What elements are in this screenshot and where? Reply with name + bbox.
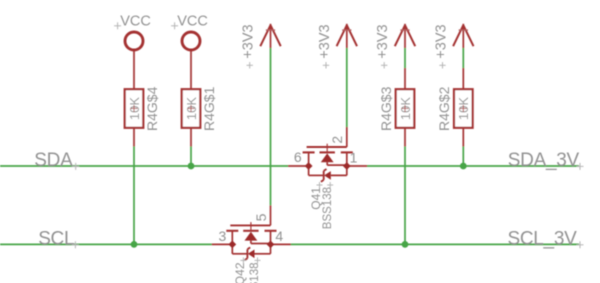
svg-text:+3V3: +3V3 — [375, 24, 391, 58]
net label SDA — [34, 150, 79, 171]
svg-text:+3V3: +3V3 — [241, 24, 257, 58]
label Q42 — [233, 257, 247, 283]
svg-text:4: 4 — [275, 228, 283, 244]
wire +3V3 to Q42 pin 5 — [270, 48, 272, 205]
svg-text:6: 6 — [294, 149, 302, 165]
pin wire below R4G$4 — [133, 128, 135, 147]
supply symbol +3V3 (third) — [375, 24, 415, 69]
svg-text:5: 5 — [253, 213, 269, 221]
pin number 4 (Q42) — [275, 228, 283, 244]
junction on SCL at R4G$4 — [131, 241, 138, 248]
svg-text:R4G$1: R4G$1 — [201, 86, 217, 131]
svg-text:R4G$3: R4G$3 — [378, 86, 394, 131]
supply symbol VCC (left) — [114, 14, 151, 50]
wire net SCL (right segment) — [291, 243, 579, 245]
resistor R4G$4 10K — [125, 86, 160, 131]
net label SCL_3V — [508, 229, 584, 250]
wire R4G$4 to SCL — [133, 147, 135, 245]
net label SCL — [38, 229, 79, 250]
wire net SDA (right segment) — [367, 165, 579, 167]
svg-text:R4G$4: R4G$4 — [144, 86, 160, 131]
wire net SDA (left segment) — [0, 165, 288, 167]
svg-text:BSS138: BSS138 — [322, 187, 334, 229]
svg-text:VCC: VCC — [120, 14, 151, 30]
pin number 6 (Q41) — [294, 149, 302, 165]
pin number 5 (Q42) — [253, 213, 269, 221]
svg-text:SCL_3V: SCL_3V — [508, 229, 578, 250]
pin wire below R4G$3 — [404, 128, 406, 147]
svg-text:+3V3: +3V3 — [317, 24, 333, 58]
svg-text:SDA: SDA — [34, 150, 73, 171]
supply symbol +3V3 (second) — [317, 24, 357, 69]
svg-text:VCC: VCC — [177, 14, 208, 30]
net label SDA_3V — [508, 150, 584, 171]
label Q41 — [309, 182, 323, 210]
resistor R4G$3 10K — [378, 86, 415, 131]
pin wire above R4G$2 — [462, 68, 464, 89]
wire R4G$2 to SDA — [462, 147, 464, 167]
junction on SCL at R4G$3 — [402, 241, 409, 248]
pin wire below R4G$1 — [190, 128, 192, 147]
label BSS138 (Q41) — [322, 182, 334, 229]
svg-text:SCL: SCL — [38, 229, 74, 250]
junction on SDA at R4G$1 — [188, 163, 195, 170]
svg-text:2: 2 — [329, 136, 345, 144]
supply symbol +3V3 (fourth) — [434, 24, 474, 69]
svg-text:+3V3: +3V3 — [434, 24, 450, 58]
svg-text:SDA_3V: SDA_3V — [508, 150, 580, 171]
transistor Q41 BSS138 — [288, 127, 367, 182]
supply symbol VCC (second) — [171, 14, 208, 50]
junction on SDA at R4G$2 — [460, 163, 467, 170]
wire +3V3 to Q41 pin 2 — [346, 48, 348, 127]
svg-text:Q42: Q42 — [233, 262, 247, 283]
pin wire above R4G$3 — [404, 68, 406, 89]
wire VCC pin to R4G$4 — [133, 50, 135, 89]
wire VCC pin to R4G$1 — [190, 50, 192, 89]
svg-text:3: 3 — [219, 228, 227, 244]
wire net SCL (left segment) — [0, 243, 212, 245]
svg-text:BSS138: BSS138 — [249, 263, 261, 283]
resistor R4G$1 10K — [182, 86, 217, 131]
supply symbol +3V3 (first) — [241, 24, 281, 69]
wire +3V3 to R4G$3 — [404, 48, 406, 68]
svg-text:1: 1 — [350, 150, 358, 166]
pin number 2 (Q41) — [329, 136, 345, 144]
pin wire below R4G$2 — [462, 128, 464, 147]
wire +3V3 to R4G$2 — [462, 48, 464, 68]
wire R4G$1 to SDA — [190, 147, 192, 167]
wire R4G$3 to SCL — [404, 147, 406, 245]
svg-text:R4G$2: R4G$2 — [436, 86, 452, 131]
resistor R4G$2 10K — [436, 86, 473, 131]
pin number 3 (Q42) — [219, 228, 227, 244]
label BSS138 (Q42) — [249, 257, 261, 283]
transistor Q42 BSS138 — [212, 205, 291, 260]
pin number 1 (Q41) — [350, 150, 358, 166]
